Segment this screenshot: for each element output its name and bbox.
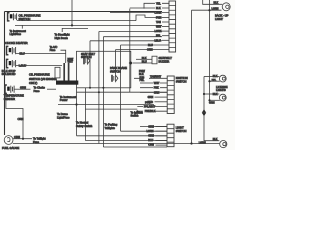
node mid dot2 [75, 103, 77, 105]
svg-text:Switch: Switch [131, 114, 139, 118]
svg-text:ONLY): ONLY) [29, 81, 37, 85]
node GRN junction [208, 99, 210, 101]
node junction dot [71, 24, 73, 26]
connector stub YEL [144, 3, 169, 8]
svg-text:SWITCH (V8 ENGINE: SWITCH (V8 ENGINE [29, 77, 57, 81]
wire bus vertical PPL drop [102, 37, 104, 147]
ignition switch connector cells [167, 76, 174, 114]
oil pressure switch S1 symbol [8, 13, 17, 21]
svg-text:PNK/BLK: PNK/BLK [145, 110, 156, 113]
wire PPL long [103, 36, 162, 38]
to headlight tag [55, 33, 70, 40]
wire GRN license bottom [210, 99, 220, 101]
svg-text:FUEL GAUGE: FUEL GAUGE [2, 146, 19, 150]
svg-text:BLK: BLK [142, 57, 147, 60]
svg-text:Safety Switch: Safety Switch [76, 124, 93, 128]
label BRN WHT [68, 58, 74, 64]
light switch wire GRN2 [156, 135, 168, 137]
ignition wire WHT [140, 82, 167, 84]
wire GRN temp sender [15, 88, 31, 90]
oil pressure switch v8 note [29, 72, 57, 85]
svg-text:GRN: GRN [20, 86, 26, 90]
wire park brake drop [115, 50, 117, 75]
svg-text:SWITCH: SWITCH [176, 129, 187, 133]
choke heater CH1 symbol [7, 46, 16, 54]
svg-text:SWITCH: SWITCH [176, 79, 187, 83]
svg-text:LIGHTS: LIGHTS [216, 88, 226, 92]
light switch wire BLU [156, 140, 168, 142]
node mid dot1 [98, 91, 100, 93]
wire license BLK bus [203, 77, 205, 95]
ignition wire labels [144, 75, 162, 113]
wire long bottom ORN-LGRN [13, 143, 220, 145]
svg-text:BLK: BLK [213, 75, 218, 78]
wire ORN long [116, 49, 170, 51]
temperature sender T1 symbol [5, 85, 14, 93]
wire jog to connector pin PNK [136, 15, 162, 21]
to choke fuse tag [34, 86, 46, 93]
connector stub LGRN [110, 12, 169, 14]
svg-text:Power: Power [60, 98, 68, 102]
svg-text:GRN: GRN [148, 135, 154, 138]
wire bus vertical LBLU drop to seat belt [89, 41, 91, 88]
svg-text:LGRN: LGRN [212, 8, 219, 11]
to instrument light tag [10, 29, 27, 36]
svg-text:BLU: BLU [142, 61, 147, 64]
light switch connector cells [167, 124, 174, 147]
back-up light lamp L1 [222, 3, 230, 11]
to neutral safety tag [76, 121, 93, 128]
svg-text:LGRN: LGRN [199, 142, 206, 145]
inline connector diamond right [202, 109, 206, 116]
connector stub TAN [162, 21, 169, 23]
svg-text:OIL PRESSURE: OIL PRESSURE [29, 72, 50, 76]
wire bus vertical BLU drop [120, 45, 122, 131]
to taillight fuse tag [33, 137, 46, 144]
ignition wire RED [155, 101, 168, 103]
svg-text:BLK: BLK [156, 7, 161, 10]
node LGRN bottom junction [190, 142, 192, 144]
connector stub PPL [162, 35, 169, 37]
connector wire labels [147, 2, 162, 51]
svg-text:TAN: TAN [156, 21, 161, 24]
label FUS PNL [140, 76, 145, 82]
wire bottom horizontal 4th [103, 146, 167, 148]
svg-text:WHT: WHT [68, 61, 74, 64]
wire BLU buzzer [133, 62, 152, 64]
wire long vertical mid [129, 9, 131, 93]
ignition wire GRN2 [155, 96, 168, 98]
ground strap box [55, 67, 60, 78]
svg-text:PPL/WHT: PPL/WHT [144, 106, 156, 109]
svg-text:High Beam: High Beam [55, 36, 69, 40]
svg-text:WHT: WHT [154, 82, 160, 85]
svg-text:BLK: BLK [214, 2, 219, 5]
light switch wire ORN [156, 144, 168, 146]
wire LGRN long [99, 31, 162, 33]
node PPL junction [208, 80, 210, 82]
back-up light label [215, 14, 229, 21]
svg-text:LBLU: LBLU [155, 39, 161, 42]
svg-text:ORN: ORN [14, 135, 20, 139]
wire mid horizontal 3 [85, 108, 137, 110]
fuel gauge sender G1 [4, 136, 13, 145]
svg-text:ORN: ORN [18, 117, 24, 121]
svg-text:RED: RED [148, 101, 153, 104]
wire mid horizontal 2 [58, 104, 154, 106]
svg-text:BLU: BLU [20, 51, 25, 55]
node ign dot [136, 110, 138, 112]
ignition wire PPL WHT [137, 106, 167, 108]
svg-text:SENDER: SENDER [4, 97, 15, 101]
to dome light tag [57, 112, 70, 119]
wire box left drop [76, 88, 78, 136]
license light lamp L3 [219, 94, 226, 101]
wire LGRN to backup light [192, 9, 222, 11]
back-up light lamp L4 [220, 141, 227, 148]
park brake switch label [110, 66, 127, 73]
ignition wire PNK BLK [137, 110, 167, 112]
svg-text:Fuse: Fuse [34, 89, 40, 93]
svg-text:LGRN: LGRN [155, 12, 162, 15]
wire BLK bus lower [204, 94, 219, 141]
light switch wire labels [147, 126, 155, 147]
svg-text:SOLENOID: SOLENOID [2, 72, 16, 76]
node instrument tap stub [21, 25, 23, 28]
svg-text:PPL: PPL [156, 35, 161, 38]
node BLK bottom junction [203, 93, 205, 95]
to parking taillights tag [105, 123, 118, 130]
node box bottom dot1 [89, 87, 91, 89]
ignition switch label [176, 76, 188, 83]
node fuel junction [22, 138, 24, 140]
svg-text:TAN/WHT: TAN/WHT [150, 75, 162, 78]
wire bus vertical LGRN drop [98, 32, 100, 144]
svg-text:CHOKE HEATER: CHOKE HEATER [5, 41, 28, 45]
seatbelt buzzer B1 [152, 56, 157, 64]
svg-text:LIGHT: LIGHT [215, 17, 223, 21]
label PNK BLK [139, 70, 145, 76]
wire BLU long [121, 44, 169, 46]
wire LGRN long vertical [191, 10, 193, 143]
svg-text:BLK: BLK [213, 93, 218, 96]
wire PPL license top [210, 80, 220, 82]
wire BLK license top [204, 76, 219, 78]
wire temp sender down path [6, 93, 23, 138]
junction box outline [77, 51, 131, 88]
wire oil pressure switch [17, 20, 136, 22]
main connector C100 cells [169, 1, 176, 52]
ignition wire PNK [140, 87, 167, 89]
park brake switch S3 symbol [112, 75, 118, 82]
svg-text:PPL: PPL [212, 79, 217, 82]
svg-text:GRY: GRY [156, 26, 162, 29]
temperature sender label [4, 94, 24, 101]
seat belt switch S2 symbol [84, 57, 90, 64]
svg-text:GRN: GRN [148, 96, 154, 99]
wire LBLU idle stop [16, 65, 62, 67]
to ignition tag [131, 110, 144, 117]
node box bottom dot2 [102, 87, 104, 89]
license light lamp L2 [219, 75, 226, 82]
wire LBLU long [90, 40, 162, 42]
wire AC fuse bend [61, 50, 66, 63]
svg-text:ORN: ORN [147, 49, 153, 52]
svg-text:GRN: GRN [148, 126, 154, 129]
svg-text:BLU: BLU [148, 44, 153, 47]
svg-text:BLU: BLU [148, 139, 153, 142]
connector stub PNK [162, 16, 169, 18]
bulkhead connector black bar [56, 63, 78, 85]
wire choke fuse cont [47, 88, 56, 90]
light switch label [176, 126, 187, 133]
license lights label [216, 85, 228, 92]
node LGRN junction [208, 9, 210, 11]
wire right vertical BLK top [203, 0, 223, 4]
wire bottom horizontal GRN2 [77, 135, 168, 137]
wire BLK buzzer [136, 58, 152, 60]
connector stub LGRN2 [162, 30, 169, 32]
svg-text:Fuse: Fuse [50, 48, 56, 52]
svg-text:Light/Fuse: Light/Fuse [57, 115, 70, 119]
inline connector diamond on BLU wire [129, 61, 133, 65]
svg-text:GRN: GRN [209, 102, 215, 105]
wire right vertical bus [209, 0, 211, 100]
connector stub GRY [162, 26, 169, 28]
wire mid horizontal 1 [77, 91, 168, 93]
wire ORN fuel sender [13, 138, 32, 140]
wire to headlight high beam [62, 28, 88, 32]
wire bottom horizontal GRN1 [140, 126, 167, 128]
border frame top [5, 11, 163, 13]
svg-text:PNK: PNK [154, 87, 159, 90]
svg-text:LGRN: LGRN [147, 130, 154, 133]
wire bottom horizontal LGRN [121, 130, 167, 132]
svg-text:YEL: YEL [156, 2, 161, 5]
connector stub LBLU [162, 39, 169, 41]
ignition wire TAN WHT [134, 77, 167, 79]
svg-text:Light/Gas: Light/Gas [10, 32, 22, 36]
light switch wire LGRN [156, 130, 168, 132]
wire vertical from top [71, 0, 73, 25]
svg-text:PNK: PNK [156, 16, 161, 19]
wire BLU choke [16, 53, 66, 55]
connector stub BLK [130, 7, 169, 9]
svg-text:GRN: GRN [154, 91, 160, 94]
to AC fuse tag [50, 45, 58, 52]
ignition wire GRN [140, 91, 167, 93]
border frame left [4, 12, 6, 136]
svg-text:ORN: ORN [148, 143, 154, 146]
seat belt switch label [81, 52, 95, 59]
seatbelt buzzer label [159, 56, 173, 63]
wire bottom horizontal BLU [85, 140, 167, 142]
idle stop solenoid L1 symbol [7, 59, 16, 67]
wire box bottom drop a [84, 88, 86, 141]
svg-text:BUZZER: BUZZER [159, 59, 170, 63]
svg-text:Taillights: Taillights [105, 126, 116, 130]
to instrument power tag [60, 95, 77, 102]
svg-text:L.BLU: L.BLU [19, 63, 27, 67]
wire BLK license bottom [204, 93, 219, 95]
light switch wire GRN [156, 126, 168, 128]
oil pressure switch label [19, 13, 41, 21]
wire instrument light [15, 24, 162, 26]
svg-text:BLK: BLK [213, 138, 218, 141]
svg-text:PNL: PNL [140, 79, 145, 82]
svg-text:LGRN: LGRN [155, 30, 162, 33]
idle stop label [2, 69, 16, 76]
